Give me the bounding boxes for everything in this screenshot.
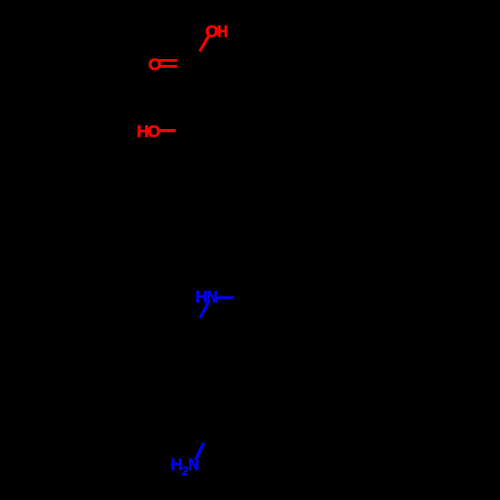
svg-text:H: H [217,22,228,41]
svg-text:H: H [195,288,207,307]
svg-text:O: O [147,122,160,141]
svg-text:O: O [148,55,161,74]
